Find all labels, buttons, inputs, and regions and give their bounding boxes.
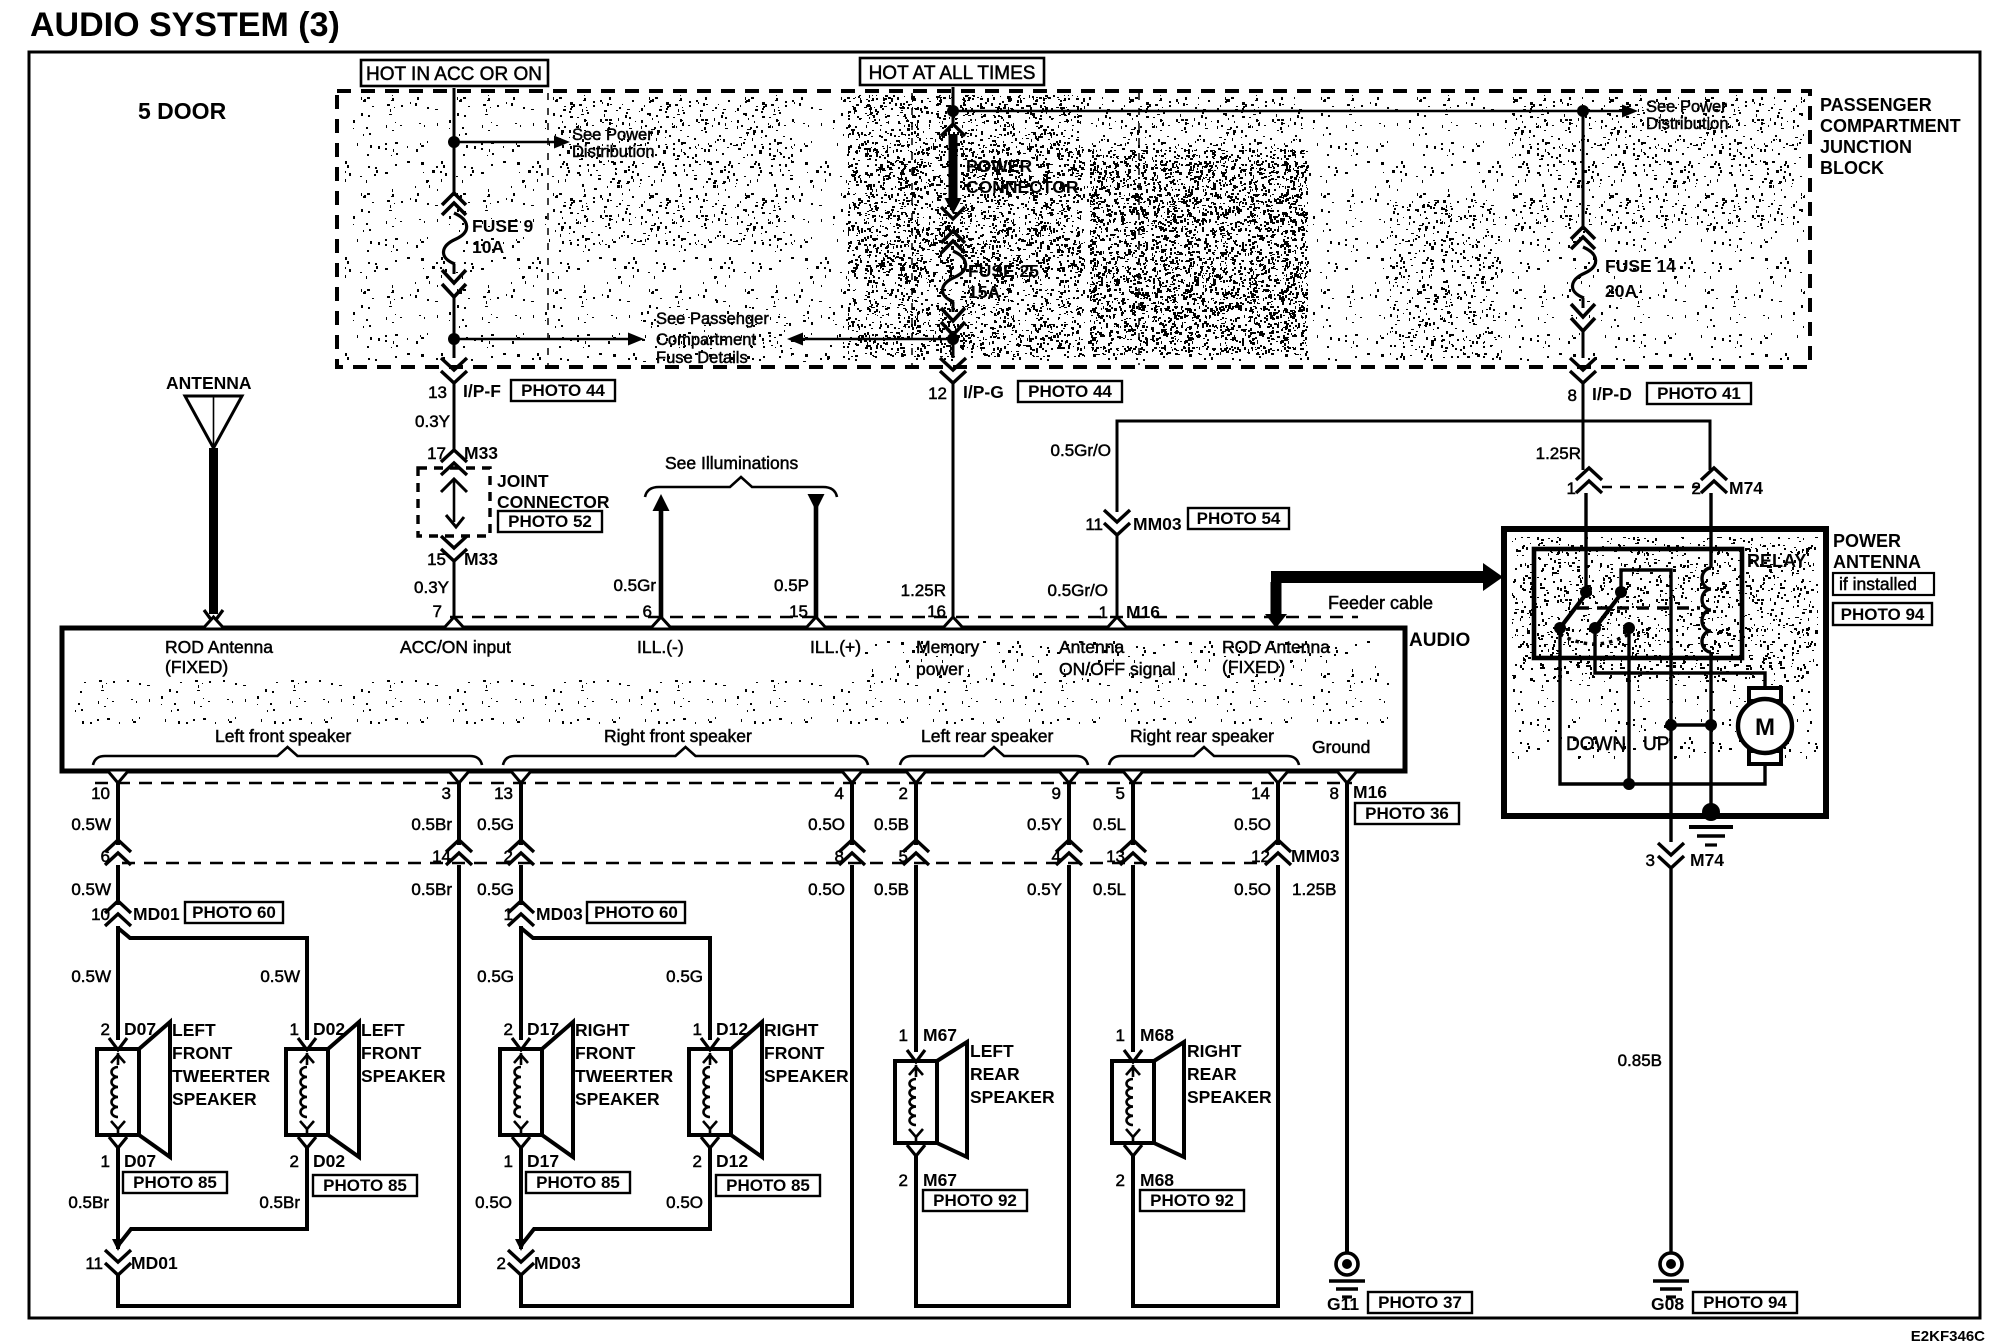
svg-text:TWEERTER: TWEERTER — [575, 1066, 674, 1086]
svg-text:ROD Antenna: ROD Antenna — [165, 637, 273, 657]
svg-text:0.5G: 0.5G — [477, 967, 514, 986]
connector pin 13 I/P-F (PHOTO 44) — [428, 358, 615, 402]
speaker M67 left rear — [895, 1025, 1055, 1190]
svg-text:0.5Br: 0.5Br — [259, 1193, 300, 1212]
svg-text:1: 1 — [290, 1020, 299, 1039]
svg-text:PHOTO 60: PHOTO 60 — [192, 903, 276, 922]
svg-text:0.3Y: 0.3Y — [415, 412, 450, 431]
svg-text:M74: M74 — [1690, 850, 1724, 870]
svg-text:ON/OFF signal: ON/OFF signal — [1059, 659, 1176, 679]
photo label D17 — [526, 1172, 630, 1193]
svg-text:CONNECTOR: CONNECTOR — [966, 177, 1079, 197]
svg-text:COMPARTMENT: COMPARTMENT — [1820, 116, 1961, 136]
svg-text:2: 2 — [899, 784, 908, 803]
svg-text:0.5O: 0.5O — [666, 1193, 703, 1212]
svg-text:HOT AT ALL TIMES: HOT AT ALL TIMES — [869, 63, 1036, 84]
svg-text:14: 14 — [1251, 784, 1270, 803]
wire M74-1 into relay — [1584, 493, 1587, 592]
svg-text:8: 8 — [1330, 784, 1339, 803]
label box HOT AT ALL TIMES — [860, 58, 1044, 85]
svg-text:I/P-G: I/P-G — [963, 382, 1004, 402]
relay linkage dotted arc — [1560, 634, 1629, 644]
svg-text:2: 2 — [1692, 479, 1701, 498]
svg-text:Distribution: Distribution — [572, 143, 655, 161]
svg-text:13: 13 — [494, 784, 513, 803]
relay coil — [1702, 529, 1711, 812]
ground G08 (PHOTO 94) — [1651, 1253, 1689, 1314]
svg-text:Memory: Memory — [916, 637, 979, 657]
relay net: switch2 common to ground line — [1621, 570, 1671, 725]
svg-text:M33: M33 — [464, 549, 498, 569]
passenger compartment junction block (dashed) — [337, 91, 1961, 367]
svg-text:UP: UP — [1643, 734, 1669, 755]
svg-text:PHOTO 85: PHOTO 85 — [323, 1176, 407, 1195]
svg-text:0.5Gr: 0.5Gr — [613, 576, 656, 595]
wire 0.5W to MD01 — [116, 865, 120, 905]
svg-text:ACC/ON input: ACC/ON input — [400, 637, 511, 657]
svg-text:D17: D17 — [527, 1019, 559, 1039]
svg-text:SPEAKER: SPEAKER — [172, 1089, 257, 1109]
svg-text:LEFT: LEFT — [172, 1020, 216, 1040]
wires audio to MM03 connector — [118, 783, 1278, 845]
svg-text:MD03: MD03 — [534, 1253, 581, 1273]
svg-text:RELAY: RELAY — [1747, 551, 1806, 571]
svg-text:TWEERTER: TWEERTER — [172, 1066, 271, 1086]
variant label 5 DOOR — [138, 98, 227, 124]
motor M — [1738, 688, 1792, 764]
svg-text:1: 1 — [1116, 1026, 1125, 1045]
svg-text:Right rear speaker: Right rear speaker — [1130, 726, 1274, 746]
svg-text:D12: D12 — [716, 1151, 748, 1171]
svg-text:CONNECTOR: CONNECTOR — [497, 492, 610, 512]
svg-text:PHOTO 94: PHOTO 94 — [1703, 1293, 1787, 1312]
svg-text:AUDIO SYSTEM (3): AUDIO SYSTEM (3) — [30, 6, 340, 44]
DOWN / UP labels — [1566, 734, 1669, 755]
svg-text:SPEAKER: SPEAKER — [970, 1087, 1055, 1107]
label box HOT IN ACC OR ON — [361, 60, 548, 86]
antenna symbol — [166, 373, 252, 623]
svg-text:FUSE 25: FUSE 25 — [968, 261, 1039, 281]
fuse FUSE 25 15A — [941, 231, 1039, 335]
wire 0.5L to M68 — [1131, 865, 1135, 1052]
svg-text:3: 3 — [1646, 851, 1655, 870]
svg-text:0.5Br: 0.5Br — [68, 1193, 109, 1212]
svg-text:M67: M67 — [923, 1170, 957, 1190]
wire 0.5Gr/O to audio pin 1 M16 — [1048, 536, 1161, 627]
wire 0.5B to M67 — [914, 865, 918, 1052]
svg-text:10A: 10A — [472, 237, 504, 257]
svg-text:SPEAKER: SPEAKER — [764, 1066, 849, 1086]
svg-text:PHOTO 85: PHOTO 85 — [536, 1173, 620, 1192]
relay net: down contact to motor bottom — [1560, 628, 1765, 790]
connector pin 12 I/P-G (PHOTO 44) — [928, 358, 1122, 403]
svg-text:20A: 20A — [1605, 281, 1637, 301]
connector M74 pins 1 and 2 — [1567, 468, 1764, 498]
photo label relay — [1833, 603, 1932, 625]
relay actuator dashed line — [1577, 606, 1700, 609]
wire 0.5Br returns to MD01 pin 11 — [68, 1148, 307, 1251]
photo label D07 — [123, 1172, 227, 1193]
fuse FUSE 9 10A — [442, 193, 534, 297]
svg-text:SPEAKER: SPEAKER — [361, 1066, 446, 1086]
svg-text:Ground: Ground — [1312, 737, 1370, 757]
svg-text:RIGHT: RIGHT — [764, 1020, 819, 1040]
audio bottom pin numbers M16 — [91, 782, 1387, 803]
relay switch contacts — [1554, 586, 1635, 634]
joint connector (dashed box, PHOTO 52) — [418, 468, 610, 536]
speaker D02 left front — [286, 1019, 446, 1171]
svg-text:1: 1 — [899, 1026, 908, 1045]
photo label for M16 — [1355, 803, 1459, 824]
photo label G11 — [1368, 1292, 1472, 1313]
svg-text:M: M — [1755, 714, 1775, 741]
connector pin 8 I/P-D (PHOTO 41) — [1568, 358, 1751, 405]
svg-text:0.5Br: 0.5Br — [411, 880, 452, 899]
audio top pin notches — [203, 617, 1129, 629]
svg-text:9: 9 — [1052, 784, 1061, 803]
wire: HOT IN ACC OR ON feed — [453, 88, 456, 196]
svg-text:0.5Y: 0.5Y — [1027, 880, 1062, 899]
relay net: switch2 contact to motor top — [1595, 628, 1765, 688]
svg-text:ANTENNA: ANTENNA — [1833, 552, 1921, 572]
svg-text:G08: G08 — [1651, 1294, 1684, 1314]
speaker group labels and braces — [93, 726, 1370, 765]
svg-text:2: 2 — [290, 1152, 299, 1171]
svg-text:M68: M68 — [1140, 1170, 1174, 1190]
connector pin 2 MD03 — [497, 1250, 581, 1275]
svg-text:1: 1 — [504, 1152, 513, 1171]
wire 0.3Y to M33 joint connector — [415, 384, 454, 450]
power connector symbol — [941, 124, 1079, 219]
svg-text:0.5Y: 0.5Y — [1027, 815, 1062, 834]
svg-text:5 DOOR: 5 DOOR — [138, 98, 227, 124]
svg-text:13: 13 — [428, 383, 447, 402]
fuse FUSE 14 20A — [1571, 227, 1676, 331]
speaker M68 right rear — [1112, 1025, 1272, 1190]
svg-text:Compartment: Compartment — [656, 331, 756, 349]
connector pin 3 M74 — [1646, 843, 1725, 870]
svg-text:0.3Y: 0.3Y — [414, 578, 449, 597]
svg-text:BLOCK: BLOCK — [1820, 158, 1884, 178]
svg-text:LEFT: LEFT — [970, 1041, 1014, 1061]
svg-text:0.5G: 0.5G — [477, 815, 514, 834]
svg-text:0.5O: 0.5O — [808, 815, 845, 834]
svg-text:MD03: MD03 — [536, 904, 583, 924]
wire 1.25R to audio pin 16 — [901, 384, 953, 627]
svg-text:17: 17 — [427, 444, 446, 463]
scan-noise texture inside junction block — [345, 95, 1805, 362]
wire 0.3Y to audio pin 7 — [414, 562, 454, 627]
wire 0.5Br return loop to audio pin 3 — [118, 865, 459, 1306]
svg-text:0.5Gr/O: 0.5Gr/O — [1048, 581, 1108, 600]
photo label D12 — [716, 1175, 820, 1196]
svg-text:PHOTO 92: PHOTO 92 — [933, 1191, 1017, 1210]
svg-text:0.5W: 0.5W — [71, 967, 111, 986]
svg-text:MM03: MM03 — [1133, 514, 1182, 534]
svg-text:1.25R: 1.25R — [1536, 444, 1581, 463]
svg-text:0.5W: 0.5W — [71, 880, 111, 899]
audio pin function labels — [165, 637, 1330, 679]
joint connector photo label — [498, 511, 602, 532]
svg-text:2: 2 — [899, 1171, 908, 1190]
svg-text:DOWN: DOWN — [1566, 734, 1626, 755]
svg-text:Left front speaker: Left front speaker — [215, 726, 351, 746]
photo label G08 — [1693, 1292, 1797, 1313]
svg-text:15A: 15A — [968, 282, 1000, 302]
wire below fuse 9 — [453, 297, 456, 358]
svg-text:I/P-F: I/P-F — [463, 381, 501, 401]
speaker D17 right front tweeter — [500, 1019, 674, 1171]
wire M74-2 into relay coil — [1709, 493, 1712, 568]
node: junction to power distribution — [448, 126, 655, 161]
connector MM03 row dashed line — [122, 862, 1262, 865]
connector pin 11 MD01 — [85, 1250, 178, 1275]
wire from bus to fuse 14 — [1582, 111, 1585, 230]
svg-text:10: 10 — [91, 905, 110, 924]
svg-text:D12: D12 — [716, 1019, 748, 1039]
wire 0.5Gr/O audio pin1 to M74-2 — [1051, 421, 1710, 512]
svg-text:0.5B: 0.5B — [874, 880, 909, 899]
wire 0.5Gr ILL(-) with up arrow — [613, 494, 669, 627]
svg-text:8: 8 — [1568, 386, 1577, 405]
svg-text:0.5Gr/O: 0.5Gr/O — [1051, 441, 1111, 460]
node: junction to power distribution (right) — [1577, 98, 1729, 133]
connector pin 17 M33 — [427, 443, 498, 475]
svg-text:0.5B: 0.5B — [874, 815, 909, 834]
svg-text:0.5O: 0.5O — [1234, 815, 1271, 834]
svg-text:SPEAKER: SPEAKER — [1187, 1087, 1272, 1107]
wire 0.5O return loop to audio pin 4 — [521, 865, 852, 1306]
svg-text:1: 1 — [1099, 603, 1108, 622]
wire 0.5W branch to both left front speakers — [71, 926, 307, 1040]
svg-text:PHOTO 60: PHOTO 60 — [594, 903, 678, 922]
photo label M67 — [923, 1190, 1027, 1211]
wire colour labels row 2 — [71, 880, 1336, 899]
svg-text:(FIXED): (FIXED) — [165, 657, 228, 677]
svg-text:1: 1 — [1567, 479, 1576, 498]
svg-text:FUSE 14: FUSE 14 — [1605, 256, 1676, 276]
wire 0.85B to ground G08 — [1618, 869, 1671, 1253]
speaker D12 right front — [689, 1019, 849, 1171]
svg-text:I/P-D: I/P-D — [1592, 384, 1632, 404]
svg-text:1: 1 — [504, 905, 513, 924]
svg-text:PHOTO 54: PHOTO 54 — [1197, 509, 1281, 528]
svg-text:Fuse Details: Fuse Details — [656, 349, 748, 367]
svg-text:if installed: if installed — [1839, 574, 1917, 594]
svg-text:JOINT: JOINT — [497, 471, 549, 491]
svg-text:REAR: REAR — [970, 1064, 1020, 1084]
svg-text:JUNCTION: JUNCTION — [1820, 137, 1912, 157]
svg-text:0.5L: 0.5L — [1093, 880, 1126, 899]
svg-text:PHOTO 85: PHOTO 85 — [133, 1173, 217, 1192]
connector pin 15 M33 — [427, 536, 498, 569]
speaker D07 left front tweeter — [97, 1019, 271, 1171]
svg-text:PHOTO 41: PHOTO 41 — [1657, 384, 1741, 403]
svg-text:0.5O: 0.5O — [808, 880, 845, 899]
wire relay to M74-3 — [1669, 725, 1672, 842]
svg-text:12: 12 — [928, 384, 947, 403]
relay noise texture — [1512, 537, 1818, 759]
svg-text:PHOTO 36: PHOTO 36 — [1365, 804, 1449, 823]
svg-text:1.25B: 1.25B — [1292, 880, 1336, 899]
svg-text:FRONT: FRONT — [575, 1043, 636, 1063]
svg-text:2: 2 — [504, 1020, 513, 1039]
connector pin 11 MM03 (PHOTO 54) — [1085, 508, 1289, 535]
svg-text:3: 3 — [442, 784, 451, 803]
svg-text:See Power: See Power — [1646, 98, 1727, 116]
wire 0.5P ILL(+) with down arrow — [774, 494, 824, 627]
svg-text:MM03: MM03 — [1291, 846, 1340, 866]
svg-text:AUDIO: AUDIO — [1409, 630, 1470, 651]
photo label D02 — [313, 1175, 417, 1196]
svg-text:0.5O: 0.5O — [475, 1193, 512, 1212]
svg-text:6: 6 — [101, 847, 110, 866]
svg-text:Right front speaker: Right front speaker — [604, 726, 752, 746]
svg-text:ANTENNA: ANTENNA — [166, 373, 252, 393]
svg-text:ILL.(-): ILL.(-) — [637, 637, 684, 657]
wire/arrow from fuse 25 branch to fuse details note — [787, 333, 950, 346]
svg-text:1: 1 — [101, 1152, 110, 1171]
svg-text:PHOTO 52: PHOTO 52 — [508, 512, 592, 531]
svg-text:RIGHT: RIGHT — [575, 1020, 630, 1040]
svg-text:POWER: POWER — [1833, 531, 1901, 551]
svg-text:PHOTO 85: PHOTO 85 — [726, 1176, 810, 1195]
svg-text:ILL.(+): ILL.(+) — [810, 637, 861, 657]
svg-text:5: 5 — [1116, 784, 1125, 803]
svg-text:HOT IN ACC OR ON: HOT IN ACC OR ON — [366, 64, 542, 85]
wire 0.5G branch to both right front speakers — [477, 926, 710, 1040]
node: junction to fuse details — [448, 310, 769, 367]
svg-text:See Passenger: See Passenger — [656, 310, 769, 328]
audio bottom pin notches — [107, 770, 1358, 783]
svg-text:(FIXED): (FIXED) — [1222, 657, 1285, 677]
svg-text:0.5O: 0.5O — [1234, 880, 1271, 899]
svg-text:FUSE 9: FUSE 9 — [472, 216, 534, 236]
svg-text:ROD Antenna: ROD Antenna — [1222, 637, 1330, 657]
relay net: coil to ground jumper — [1665, 719, 1717, 731]
svg-text:15: 15 — [427, 550, 446, 569]
svg-text:D07: D07 — [124, 1019, 156, 1039]
svg-text:SPEAKER: SPEAKER — [575, 1089, 660, 1109]
svg-text:PHOTO 44: PHOTO 44 — [521, 381, 605, 400]
svg-text:REAR: REAR — [1187, 1064, 1237, 1084]
internal partition dashed lines — [548, 93, 1139, 365]
svg-text:0.5Br: 0.5Br — [411, 815, 452, 834]
audio unit box — [62, 628, 1470, 771]
wire 1.25R to relay — [1536, 384, 1583, 470]
svg-text:M74: M74 — [1729, 478, 1763, 498]
svg-text:Feeder cable: Feeder cable — [1328, 593, 1433, 613]
svg-text:LEFT: LEFT — [361, 1020, 405, 1040]
connector pin 10 MD01 (PHOTO 60) — [91, 901, 283, 926]
svg-text:0.5W: 0.5W — [260, 967, 300, 986]
svg-text:7: 7 — [433, 602, 442, 621]
svg-text:0.5P: 0.5P — [774, 576, 809, 595]
svg-text:MD01: MD01 — [131, 1253, 178, 1273]
svg-text:Distribution: Distribution — [1646, 115, 1729, 133]
svg-text:PHOTO 92: PHOTO 92 — [1150, 1191, 1234, 1210]
wire 0.5G to MD03 — [519, 865, 523, 905]
svg-text:D02: D02 — [313, 1019, 345, 1039]
wire 0.5Y return loop to audio pin 9 — [916, 865, 1069, 1306]
svg-text:RIGHT: RIGHT — [1187, 1041, 1242, 1061]
wire: HOT AT ALL TIMES feed — [952, 87, 955, 126]
svg-text:power: power — [916, 659, 964, 679]
svg-text:Antenna: Antenna — [1059, 637, 1124, 657]
svg-text:10: 10 — [91, 784, 110, 803]
svg-text:2: 2 — [1116, 1171, 1125, 1190]
svg-text:11: 11 — [85, 1254, 103, 1273]
svg-text:PHOTO 44: PHOTO 44 — [1028, 382, 1112, 401]
svg-text:4: 4 — [835, 784, 844, 803]
svg-text:POWER: POWER — [966, 156, 1032, 176]
svg-text:See Illuminations: See Illuminations — [665, 453, 799, 473]
svg-text:M68: M68 — [1140, 1025, 1174, 1045]
ground G11 (PHOTO 37) — [1327, 1253, 1365, 1314]
wire below fuse 25 / junction — [947, 333, 959, 358]
svg-text:G11: G11 — [1327, 1294, 1359, 1314]
svg-text:D07: D07 — [124, 1151, 156, 1171]
note: See Illuminations with brace — [645, 453, 837, 497]
svg-text:0.85B: 0.85B — [1618, 1051, 1662, 1070]
svg-text:Left rear speaker: Left rear speaker — [921, 726, 1053, 746]
power antenna labels — [1833, 531, 1921, 572]
svg-text:2: 2 — [693, 1152, 702, 1171]
svg-text:1: 1 — [693, 1020, 702, 1039]
audio bottom connector M16 row (dashed) — [95, 782, 1352, 785]
audio noise band — [75, 640, 1395, 724]
svg-text:PHOTO 94: PHOTO 94 — [1841, 605, 1925, 624]
wire below fuse 14 — [1582, 331, 1585, 358]
connector MM03 row chevrons and numbers — [101, 840, 1340, 866]
svg-text:1.25R: 1.25R — [901, 581, 946, 600]
svg-text:0.5W: 0.5W — [71, 815, 111, 834]
svg-text:11: 11 — [1085, 515, 1103, 534]
svg-text:2: 2 — [101, 1020, 110, 1039]
svg-text:M33: M33 — [464, 443, 498, 463]
svg-text:FRONT: FRONT — [764, 1043, 825, 1063]
node: junction at top bus — [947, 105, 1583, 117]
wire colour labels row 1 — [71, 815, 1271, 834]
svg-text:M16: M16 — [1126, 602, 1160, 622]
relay internal ground — [1689, 803, 1733, 845]
svg-text:FRONT: FRONT — [172, 1043, 233, 1063]
relay switch blades — [1560, 590, 1624, 628]
svg-text:E2KF346C: E2KF346C — [1911, 1328, 1985, 1344]
power antenna relay box — [1504, 529, 1826, 816]
audio top connector dashed line — [450, 616, 1358, 619]
svg-text:0.5L: 0.5L — [1093, 815, 1126, 834]
svg-text:2: 2 — [497, 1254, 506, 1273]
svg-text:D17: D17 — [527, 1151, 559, 1171]
svg-text:MD01: MD01 — [133, 904, 180, 924]
feeder cable (thick arrow to relay) — [1265, 563, 1503, 628]
relay wire M74-1 to contact — [1584, 529, 1587, 592]
svg-text:See Power: See Power — [572, 126, 653, 144]
svg-text:PASSENGER: PASSENGER — [1820, 95, 1932, 115]
wire 0.5O return loop to audio pin 14 — [1133, 865, 1278, 1306]
connector pin 1 MD03 (PHOTO 60) — [504, 901, 685, 926]
svg-text:M67: M67 — [923, 1025, 957, 1045]
relay inner box — [1534, 549, 1806, 658]
svg-text:D02: D02 — [313, 1151, 345, 1171]
svg-text:0.5G: 0.5G — [666, 967, 703, 986]
svg-text:FRONT: FRONT — [361, 1043, 422, 1063]
wire 0.5O returns to MD03 pin 2 — [475, 1148, 710, 1251]
photo label M68 — [1140, 1190, 1244, 1211]
if installed box — [1833, 573, 1934, 595]
wire ground 1.25B audio pin8 to G11 — [1345, 783, 1349, 1253]
